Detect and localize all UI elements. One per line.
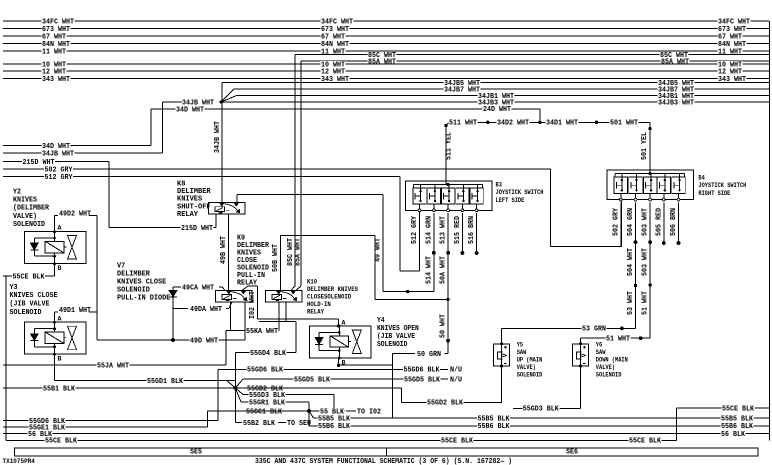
wire 502 GRY riser to B4 <box>621 200 623 247</box>
label 34FC WHT left <box>42 18 75 24</box>
node V7 junction <box>171 338 175 342</box>
label 49CA WHT <box>182 284 215 290</box>
diode V7 <box>172 287 174 291</box>
wire 55GD6 BLK upper <box>218 368 448 370</box>
svg-text:56 BLK: 56 BLK <box>721 431 746 439</box>
label 55GD6 N/U <box>450 367 463 373</box>
svg-text:TO I02: TO I02 <box>357 408 381 416</box>
label 55B5 BLK mid <box>477 415 510 421</box>
wire 512 GRY drop <box>399 177 401 272</box>
svg-text:Y2: Y2 <box>13 188 21 196</box>
wire 12 WHT bus <box>3 70 769 72</box>
label 10 WHT middle <box>321 61 346 67</box>
svg-text:34D WHT: 34D WHT <box>176 106 205 114</box>
connector SE5/SE6 box <box>15 448 759 456</box>
svg-text:55GR1 BLK: 55GR1 BLK <box>249 399 286 407</box>
wire 673 WHT bus <box>3 28 769 30</box>
svg-text:514 WHT: 514 WHT <box>426 256 434 284</box>
wire Y4-A feed <box>258 318 339 320</box>
svg-text:49D1 WHT: 49D1 WHT <box>59 307 92 315</box>
label 55CE BLK upper <box>12 273 45 279</box>
label 55B6 BLK left <box>318 423 351 429</box>
wire 343 WHT bus <box>3 78 769 80</box>
wire 55GD3 BLK upper <box>243 394 334 396</box>
svg-text:502 GRY: 502 GRY <box>612 207 620 236</box>
label 49DA WHT <box>190 306 223 312</box>
wire 34JB WHT vertical <box>162 102 164 153</box>
wire 34JB5 WHT <box>222 82 769 84</box>
wire 55KA riser to K9 <box>230 302 232 331</box>
wire to 55B6 <box>308 411 310 426</box>
svg-text:SAW: SAW <box>596 349 606 356</box>
label 55B5 BLK left <box>318 415 351 421</box>
svg-text:KNIVES OPEN: KNIVES OPEN <box>377 325 419 333</box>
label 55GD5 BLK 2nd <box>404 376 441 382</box>
svg-text:JOYSTICK SWITCH: JOYSTICK SWITCH <box>496 189 544 196</box>
label 34JB1 WHT middle <box>478 93 515 99</box>
svg-text:55B5 BLK: 55B5 BLK <box>721 415 754 423</box>
svg-text:24D WHT: 24D WHT <box>483 106 512 114</box>
label 55GD3 BLK 2nd <box>522 405 559 411</box>
wire 512 GRY riser to B3 <box>419 210 421 271</box>
wire 55 BLK to I02 <box>346 410 356 412</box>
svg-text:501 YEL: 501 YEL <box>641 132 649 160</box>
svg-text:53 WHT: 53 WHT <box>627 291 635 315</box>
wire 55GC1 BLK <box>208 410 310 412</box>
svg-text:CLOSESOLENOID: CLOSESOLENOID <box>307 293 351 300</box>
svg-text:504 GRN: 504 GRN <box>627 208 635 236</box>
svg-text:A: A <box>342 319 346 326</box>
svg-text:SOLENOID: SOLENOID <box>13 221 46 229</box>
wire K9 to Y4 vertical <box>257 286 259 319</box>
wire 55GD1 into star <box>227 381 235 388</box>
relay K10 <box>265 290 302 302</box>
wire 49DA stub <box>173 308 188 310</box>
svg-text:85A WHT: 85A WHT <box>368 58 397 66</box>
svg-text:(DELIMBER: (DELIMBER <box>13 205 50 213</box>
label 55GD1 BLK <box>147 378 184 384</box>
label 67 WHT left <box>42 33 67 39</box>
wire 55CE BLK upper <box>3 275 55 277</box>
svg-text:34D2 WHT: 34D2 WHT <box>497 120 530 128</box>
label 55GD5 BLK mid <box>294 376 331 382</box>
svg-text:11 WHT: 11 WHT <box>718 48 743 56</box>
wire 55B6 BLK <box>309 425 769 427</box>
svg-text:VALVE): VALVE) <box>596 364 615 371</box>
label 10 WHT left <box>42 61 67 67</box>
wire 55JA riser <box>225 331 227 366</box>
label 49D WHT <box>190 337 219 343</box>
node 34D2 left <box>486 121 489 124</box>
wire 49D WHT <box>97 339 245 341</box>
svg-text:49B WHT: 49B WHT <box>220 236 228 264</box>
node 505 end <box>662 241 666 245</box>
label 24D WHT <box>483 106 512 112</box>
svg-text:55GD4 BLK: 55GD4 BLK <box>250 350 287 358</box>
svg-text:SOLENOID: SOLENOID <box>10 309 43 317</box>
wire B3 pin drops <box>419 213 421 271</box>
svg-text:55GC1 BLK: 55GC1 BLK <box>246 408 283 416</box>
svg-text:55GD6 BLK: 55GD6 BLK <box>404 367 441 375</box>
svg-text:49 WHT: 49 WHT <box>375 238 383 262</box>
svg-text:503 WHT: 503 WHT <box>642 248 650 276</box>
svg-text:N/U: N/U <box>450 367 462 375</box>
label 34D WHT <box>176 106 205 112</box>
wire 55GD5 BLK <box>243 378 448 380</box>
svg-text:511 WHT: 511 WHT <box>449 119 478 127</box>
svg-text:512 GRY: 512 GRY <box>45 174 74 182</box>
svg-text:KNIVES: KNIVES <box>13 197 38 205</box>
svg-text:55CE BLK: 55CE BLK <box>629 438 662 446</box>
wire B4 pin drops <box>620 202 622 246</box>
label 55CE BLK b3 <box>629 437 662 443</box>
wire Y2 terminal A <box>54 216 56 232</box>
wire 50A run to splice <box>375 298 448 300</box>
wire 56 BLK <box>3 433 769 435</box>
label 53 GRN <box>582 326 607 332</box>
svg-text:A: A <box>58 224 62 231</box>
wire 55JA WHT <box>3 364 226 366</box>
wire Y3 terminal B <box>54 354 56 381</box>
svg-text:335C AND 437C SYSTEM FUNCTIONA: 335C AND 437C SYSTEM FUNCTIONAL SCHEMATI… <box>255 458 512 465</box>
wire 215D WHT <box>3 161 109 163</box>
svg-text:KNIVES CLOSE: KNIVES CLOSE <box>10 292 59 300</box>
label TO SEU <box>287 420 312 426</box>
svg-text:Y3: Y3 <box>10 284 18 292</box>
label 55B6 BLK right <box>721 423 754 429</box>
wire 49CA diagonal into K9 <box>222 287 225 290</box>
svg-text:85A WHT: 85A WHT <box>295 238 303 266</box>
wire 49DA diagonal into K9 <box>229 302 232 309</box>
label 502 GRY left <box>44 166 73 172</box>
svg-text:55B6 BLK: 55B6 BLK <box>478 423 511 431</box>
svg-text:506 BRN: 506 BRN <box>670 208 678 236</box>
label 85A WHT right <box>661 58 690 64</box>
svg-text:SOLENOID: SOLENOID <box>377 341 407 349</box>
label 215D WHT at K8 <box>181 225 214 231</box>
wire Y4-B vertical <box>392 354 394 418</box>
wire 85A WHT <box>301 60 769 62</box>
svg-text:55GD6 BLK: 55GD6 BLK <box>247 367 284 375</box>
svg-text:SOLENOID: SOLENOID <box>517 371 543 378</box>
label 55GD6 BLK mid <box>247 367 284 373</box>
wire fan to 55GD3 <box>235 388 243 395</box>
wire Y3 terminal A <box>54 312 56 322</box>
wire 85A WHT drop to K10 <box>300 61 302 286</box>
svg-text:50A WHT: 50A WHT <box>440 256 448 284</box>
svg-text:11 WHT: 11 WHT <box>321 48 346 56</box>
svg-text:51 WHT: 51 WHT <box>606 336 631 344</box>
label 51 WHT <box>606 335 631 341</box>
svg-text:34JB WHT: 34JB WHT <box>214 121 222 153</box>
wire fan to 55GD5 <box>235 379 243 388</box>
wire 34FC WHT bus <box>3 20 769 22</box>
wire 511 diagonal <box>446 122 450 126</box>
wire 55GD2 jog <box>400 388 402 402</box>
label 50 GRN <box>417 351 442 357</box>
wire 55KA riser to K10 <box>278 302 280 331</box>
node 516 end <box>475 251 479 255</box>
label 56 BLK left <box>28 431 53 437</box>
node 501 splice <box>648 127 651 130</box>
svg-text:B3: B3 <box>496 181 503 188</box>
svg-text:85A WHT: 85A WHT <box>661 58 690 66</box>
solenoid Y3 <box>25 322 87 354</box>
label 55JA WHT <box>97 362 130 368</box>
svg-text:KNIVES CLOSE: KNIVES CLOSE <box>117 278 167 286</box>
svg-text:49DA WHT: 49DA WHT <box>190 306 223 314</box>
svg-text:B: B <box>58 265 62 272</box>
label 55GD5 N/U <box>450 376 463 382</box>
svg-text:RELAY: RELAY <box>177 211 199 219</box>
svg-text:SE6: SE6 <box>566 449 578 457</box>
wire 49CA bracket left <box>173 286 181 288</box>
node 51 splice <box>648 283 651 286</box>
solenoid Y2 <box>25 232 87 264</box>
label 67 WHT middle <box>321 33 346 39</box>
wire 55GD6 vertical <box>217 369 219 420</box>
label 34JB1 WHT right <box>658 93 695 99</box>
wire 55B1 BLK <box>3 387 235 389</box>
wire 55GD3 BLK lower <box>513 407 581 409</box>
label 55B6 BLK mid <box>477 423 510 429</box>
svg-text:JOYSTICK SWITCH: JOYSTICK SWITCH <box>698 182 746 189</box>
wire 55GD3 jog <box>333 395 335 409</box>
svg-text:LEFT SIDE: LEFT SIDE <box>496 197 525 204</box>
wire 55CE BLK right <box>677 407 770 409</box>
label 34D WHT lower-left <box>42 143 71 149</box>
wire 55GE1 BLK <box>3 426 208 428</box>
svg-text:505 RED: 505 RED <box>655 208 663 236</box>
wire 55CE BLK left drop <box>5 276 7 440</box>
node 511 at B3 bus <box>447 183 450 186</box>
svg-text:215D WHT: 215D WHT <box>181 225 214 233</box>
wire 49D1 bracket right <box>89 311 97 313</box>
wire 53 GRN <box>502 327 636 329</box>
svg-text:VALVE): VALVE) <box>13 213 37 221</box>
label 49D2 WHT <box>59 210 92 216</box>
wire 55GD4-55B2 vertical <box>234 353 236 423</box>
wire 85C into K10 <box>291 286 295 290</box>
label 55GD6 BLK 2nd <box>403 367 440 373</box>
node 513 splice <box>446 251 450 255</box>
label 34JB WHT lower-left <box>42 150 75 156</box>
wire 53 GRN riser to Y5 <box>501 328 503 343</box>
node 514 splice <box>432 251 436 255</box>
label 55CE BLK right <box>722 405 755 411</box>
wire 10 WHT bus <box>3 63 769 65</box>
label 56 BLK right <box>721 431 746 437</box>
svg-text:RELAY: RELAY <box>307 308 324 315</box>
label TO I02 <box>357 408 382 414</box>
label 55KA WHT <box>246 328 279 334</box>
svg-text:TO SEU: TO SEU <box>287 420 311 428</box>
label 11 WHT right <box>718 48 743 54</box>
svg-text:B4: B4 <box>698 174 705 181</box>
svg-text:34JB7 WHT: 34JB7 WHT <box>444 87 481 95</box>
svg-text:SE5: SE5 <box>190 449 202 457</box>
label 501 WHT <box>610 119 639 125</box>
svg-text:55GD5 BLK: 55GD5 BLK <box>294 376 331 384</box>
relay K8 <box>209 203 246 215</box>
label 34JB5 WHT middle <box>444 80 481 86</box>
label 55B1 BLK <box>43 385 76 391</box>
svg-text:55B5 BLK: 55B5 BLK <box>318 415 351 423</box>
label 511 WHT <box>449 119 478 125</box>
svg-text:SAW: SAW <box>517 349 527 356</box>
label 85C WHT middle <box>368 52 397 58</box>
label 84N WHT right <box>718 41 747 47</box>
label 34FC WHT right <box>718 18 751 24</box>
node 50 GRN junction <box>446 339 450 343</box>
wire 24D WHT drop <box>539 109 541 122</box>
label 512 GRY left <box>44 174 73 180</box>
svg-text:516 BRN: 516 BRN <box>468 216 476 244</box>
label 49D1 WHT <box>59 307 92 313</box>
svg-text:55CE BLK: 55CE BLK <box>45 438 78 446</box>
label 12 WHT middle <box>321 68 346 74</box>
svg-text:DELIMBER: DELIMBER <box>117 270 150 278</box>
svg-text:513 WHT: 513 WHT <box>440 216 448 244</box>
wire 502 GRY drop <box>550 169 552 247</box>
svg-text:HOLD-IN: HOLD-IN <box>307 301 331 308</box>
wire 55GR1 BLK <box>241 401 309 403</box>
label 84N WHT middle <box>321 41 350 47</box>
svg-text:504 WHT: 504 WHT <box>627 248 635 276</box>
wire 50A drop <box>374 235 376 299</box>
wire fan to 55GR1 <box>235 388 241 402</box>
label 55GD3 BLK mid <box>249 392 286 398</box>
svg-text:501 WHT: 501 WHT <box>610 120 639 128</box>
label 85C WHT right <box>660 52 689 58</box>
svg-text:K10: K10 <box>307 278 317 285</box>
svg-text:55GD3 BLK: 55GD3 BLK <box>523 406 560 414</box>
wire 215D WHT vertical <box>108 162 110 228</box>
label 55B5 BLK right <box>721 415 754 421</box>
svg-text:512 GRY: 512 GRY <box>411 215 419 244</box>
svg-text:55GD2 BLK: 55GD2 BLK <box>427 400 464 408</box>
svg-text:49D WHT: 49D WHT <box>190 337 219 345</box>
svg-text:53 GRN: 53 GRN <box>582 326 606 334</box>
label 34JB5 WHT right <box>658 80 695 86</box>
label 55 BLK <box>320 408 345 414</box>
label 12 WHT left <box>42 68 67 74</box>
wire 215D WHT riser to K8 <box>215 214 217 228</box>
svg-text:UP (MAIN: UP (MAIN <box>517 356 543 363</box>
svg-text:55JA WHT: 55JA WHT <box>97 362 130 370</box>
svg-text:11 WHT: 11 WHT <box>42 48 67 56</box>
svg-text:DOWN (MAIN: DOWN (MAIN <box>596 356 628 363</box>
svg-text:RIGHT SIDE: RIGHT SIDE <box>698 190 730 197</box>
label 55GD4 BLK <box>250 350 287 356</box>
label 55CE BLK b2 <box>441 437 474 443</box>
svg-text:55B2 BLK: 55B2 BLK <box>243 420 276 428</box>
svg-text:55B6 BLK: 55B6 BLK <box>318 423 351 431</box>
label 55GD6 BLK lower <box>29 418 66 424</box>
wire 55GD2 BLK upper <box>235 387 401 389</box>
label 55GE1 BLK <box>29 424 66 430</box>
svg-text:V7: V7 <box>117 262 125 270</box>
label 215D WHT left <box>22 159 55 165</box>
wire Y5 bottom drop <box>501 366 503 402</box>
node Y4 B <box>337 364 340 367</box>
svg-text:34JB WHT: 34JB WHT <box>42 150 75 158</box>
wire 49D1 bracket left <box>55 311 59 313</box>
wire 34D WHT upper <box>151 108 540 110</box>
svg-text:Y4: Y4 <box>377 317 385 325</box>
svg-text:SOLENOID: SOLENOID <box>596 371 622 378</box>
svg-text:SOLENOID: SOLENOID <box>117 286 150 294</box>
label 34D2 WHT <box>497 119 530 125</box>
wire 50B WHT into K10 <box>280 235 282 290</box>
wire fan to 34JB7 <box>221 89 233 102</box>
wire 49D riser to K9 <box>244 302 246 340</box>
wire 55CE BLK bottom <box>6 439 677 441</box>
svg-text:55B5 BLK: 55B5 BLK <box>478 415 511 423</box>
node 504 splice <box>634 240 638 244</box>
svg-text:VALVE): VALVE) <box>517 364 536 371</box>
wire 505 RED <box>663 202 665 242</box>
wire fan to 34JB1 <box>221 96 236 102</box>
node 503 splice <box>648 240 652 244</box>
svg-text:55KA WHT: 55KA WHT <box>246 328 279 336</box>
svg-text:DELIMBER KNIVES: DELIMBER KNIVES <box>307 286 358 293</box>
label 34JB7 WHT right <box>658 86 695 92</box>
wire 34D WHT lower <box>3 145 151 147</box>
svg-text:50B WHT: 50B WHT <box>272 244 280 272</box>
node 506 end <box>677 241 681 245</box>
svg-text:49D2 WHT: 49D2 WHT <box>59 210 92 218</box>
wire 11 WHT bus <box>3 50 769 52</box>
svg-text:51 WHT: 51 WHT <box>642 291 650 315</box>
wire Y2 terminal B <box>54 264 56 276</box>
wire 55GD4 BLK <box>235 352 296 354</box>
wire 34JB WHT drop to K8 <box>221 83 223 203</box>
svg-text:514 GRN: 514 GRN <box>426 216 434 244</box>
label 34JB WHT <box>182 99 215 105</box>
node 34D1 right <box>595 121 598 124</box>
wire K10 bottom drop <box>285 302 287 322</box>
svg-text:I02 WHT: I02 WHT <box>249 291 257 319</box>
label 673 WHT left <box>42 26 71 32</box>
svg-text:(JIB VALVE: (JIB VALVE <box>10 301 51 309</box>
svg-text:503 WHT: 503 WHT <box>642 208 650 236</box>
relay K9 <box>216 290 253 302</box>
node 53 GRN junction <box>620 327 624 331</box>
label 67 WHT right <box>718 33 743 39</box>
wire 55CE riser <box>676 408 678 440</box>
wire 516 BRN <box>476 213 478 252</box>
svg-text:Y5: Y5 <box>517 341 524 348</box>
wire 55GE1 riser <box>207 411 209 427</box>
svg-text:50 GRN: 50 GRN <box>417 351 441 359</box>
solenoid Y4 <box>309 326 371 358</box>
svg-text:(JIB VALVE: (JIB VALVE <box>377 333 415 341</box>
node 501 at B4 bus <box>649 172 652 175</box>
label 34FC WHT middle <box>321 18 354 24</box>
wire 506 BRN <box>678 202 680 242</box>
svg-text:N/U: N/U <box>450 376 462 384</box>
label 55GD2 BLK <box>427 399 464 405</box>
svg-text:55CE BLK: 55CE BLK <box>13 273 46 281</box>
label 84N WHT left <box>42 41 71 47</box>
wire 49B WHT K8 to K9 <box>228 214 230 290</box>
wire Y4 terminal A <box>338 319 340 326</box>
wire 502 GRY <box>3 168 551 170</box>
wire Y4 terminal B <box>338 358 340 365</box>
label 85A WHT middle <box>368 58 397 64</box>
label 55GR1 BLK <box>249 399 286 405</box>
